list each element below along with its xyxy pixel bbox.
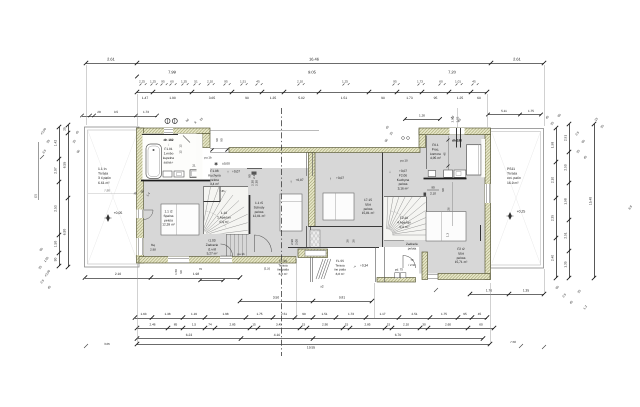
svg-text:90: 90 [431, 186, 435, 190]
level mark court [353, 264, 368, 270]
kitchen right counter fixtures [428, 170, 466, 177]
door swing diagonal top-left room [183, 136, 190, 143]
svg-text:1.01: 1.01 [455, 80, 461, 84]
small vertical dim pair at recess right [451, 116, 460, 122]
svg-text:1.51: 1.51 [341, 96, 348, 100]
svg-text:2.61: 2.61 [107, 57, 116, 62]
dimension chain: right middle vertical [564, 122, 572, 280]
svg-text:1.25: 1.25 [342, 80, 348, 84]
svg-text:90: 90 [245, 96, 249, 100]
svg-text:1.98: 1.98 [193, 272, 199, 276]
svg-text:4.10: 4.10 [274, 333, 281, 337]
level mark left kitchen [227, 169, 240, 174]
svg-text:1.75: 1.75 [441, 312, 447, 316]
door gap frame top middle wall [210, 148, 229, 152]
svg-text:1.3: 1.3 [446, 233, 450, 237]
rotated door dims above left wall door [133, 189, 152, 198]
center axis dash-dot line [281, 108, 283, 356]
dimension chain: above right terrace [486, 109, 543, 116]
svg-text:51: 51 [194, 80, 198, 84]
bathroom room white floor [143, 134, 197, 180]
svg-text:2.90: 2.90 [290, 239, 294, 245]
svg-text:95: 95 [434, 96, 438, 100]
wall: step between bathroom and recess [203, 134, 211, 148]
tall wardrobe right unit [467, 145, 482, 175]
dimension chain: bottom overall line [135, 342, 492, 350]
floor fill: right unit hall [382, 153, 420, 248]
interior partition door frames below top wall [307, 153, 313, 177]
door arc left bottom wall [221, 244, 233, 256]
floor fill: right unit top section [419, 135, 485, 274]
svg-text:2.30: 2.30 [255, 180, 259, 186]
zone line right bedroom [447, 182, 453, 226]
svg-text:5.11: 5.11 [501, 109, 507, 113]
washing machine left unit [190, 170, 202, 178]
svg-text:2.10: 2.10 [115, 272, 121, 276]
fbq labels left room [150, 243, 156, 252]
svg-text:2.10: 2.10 [430, 192, 436, 196]
wall: right court south [377, 278, 416, 283]
svg-text:↑: ↑ [227, 169, 229, 174]
extension line: left entrance to bottom chain [296, 259, 298, 318]
svg-text:1.35: 1.35 [564, 261, 568, 267]
svg-text:1.47: 1.47 [142, 96, 149, 100]
floor fill: left unit hall strip [210, 168, 309, 180]
svg-text:45: 45 [443, 152, 447, 156]
svg-text:2.10: 2.10 [207, 80, 213, 84]
bottom-left stray annotation [84, 342, 110, 348]
bottom-right stray annotations [434, 288, 546, 349]
level star left kitchen corner [214, 162, 230, 167]
svg-text:1.63: 1.63 [140, 312, 146, 316]
right court step squares [395, 268, 406, 278]
svg-text:16.46: 16.46 [309, 57, 320, 62]
door dims right court [408, 258, 416, 267]
svg-text:12: 12 [179, 144, 183, 148]
svg-text:1.42: 1.42 [54, 140, 58, 147]
svg-text:±0,00: ±0,00 [222, 162, 230, 166]
exterior steps by left entrance [316, 259, 331, 289]
svg-text:95: 95 [393, 80, 397, 84]
level mark room M1 [290, 178, 304, 184]
wall line: mid room divider [309, 226, 383, 228]
bedroom left white room [161, 204, 199, 235]
extension line: building right corner to bottom chains [490, 283, 492, 343]
window gap lower left wall [137, 238, 144, 255]
dimension chain: bottom middle partial [238, 296, 374, 304]
bed right unit [426, 212, 466, 241]
svg-text:1.76: 1.76 [486, 289, 492, 293]
svg-text:15: 15 [252, 323, 256, 327]
svg-text:2.61: 2.61 [513, 57, 522, 62]
svg-text:3.5: 3.5 [114, 110, 119, 114]
svg-text:2.10: 2.10 [297, 80, 303, 84]
svg-text:1.17: 1.17 [379, 312, 385, 316]
svg-text:pa 1b: pa 1b [237, 252, 245, 256]
svg-text:+3,07: +3,07 [336, 176, 344, 180]
wall line: bedroom2 / stair hall [382, 153, 384, 248]
extension line: top-left corner up to chain A [86, 65, 88, 125]
door gap bottom-right wall [428, 275, 439, 279]
door size label right hall [427, 186, 439, 196]
svg-text:2.51: 2.51 [411, 312, 417, 316]
bed room M1 furniture [280, 194, 302, 231]
svg-text:9.05: 9.05 [308, 70, 317, 75]
hall strip top edge line [247, 168, 262, 170]
stair right white region [384, 197, 426, 241]
small circles near right section top [402, 137, 410, 140]
svg-text:2.00: 2.00 [295, 239, 299, 245]
window gap in right wall [485, 184, 491, 203]
svg-text:1.25: 1.25 [457, 96, 464, 100]
bathroom small rotated dims [179, 144, 183, 154]
window gap in top-left wall [164, 128, 173, 134]
dimension chain: left outer vertical [63, 123, 71, 269]
dimension text row: top window sizes [139, 80, 479, 86]
wall: top-right exterior [419, 128, 491, 135]
dimension chain: small top-left over bathroom [80, 110, 159, 117]
svg-text:1.35: 1.35 [181, 80, 187, 84]
svg-text:5.02: 5.02 [298, 96, 305, 100]
extension line: right court to bottom chain [374, 283, 376, 318]
svg-text:2.88: 2.88 [150, 248, 156, 252]
door gap in left wall [137, 210, 144, 219]
svg-text:6.70: 6.70 [395, 333, 402, 337]
wardrobe line right wall [480, 225, 482, 241]
svg-text:7.85: 7.85 [219, 189, 225, 193]
dimension chain: below left terrace [83, 272, 242, 280]
svg-text:+0,25: +0,25 [517, 210, 526, 214]
svg-text:3.50: 3.50 [273, 296, 279, 300]
svg-text:7,90: 7,90 [104, 189, 110, 193]
floor fill: middle rooms [309, 153, 383, 248]
small dim line below left doors [198, 279, 224, 282]
svg-text:2.10: 2.10 [403, 323, 409, 327]
svg-text:1.35: 1.35 [270, 96, 277, 100]
door gap in top-right wall [450, 128, 465, 148]
dimension chain: top detailed line [135, 90, 489, 100]
svg-text:90: 90 [220, 138, 224, 142]
svg-text:90: 90 [381, 96, 385, 100]
stair right boundary [384, 197, 427, 241]
svg-text:1.73: 1.73 [348, 312, 354, 316]
svg-text:+0,34: +0,34 [360, 264, 368, 268]
extension line above right door [457, 108, 459, 128]
svg-text:2.02: 2.02 [451, 116, 455, 122]
door size label 90-210 [248, 173, 257, 179]
svg-text:45: 45 [256, 80, 260, 84]
floor fill: left unit main [143, 180, 309, 257]
svg-text:60: 60 [477, 96, 481, 100]
dimension chain: right inner vertical [551, 126, 559, 280]
door arc left entrance interior [255, 235, 272, 252]
rotated marks top middle recess [384, 125, 394, 143]
stair left boundary and first tread corner [203, 187, 248, 235]
svg-text:(1,5): (1,5) [264, 267, 270, 271]
left terrace internal dim [88, 189, 138, 194]
svg-text:90: 90 [248, 174, 252, 178]
svg-text:pa 10: pa 10 [400, 159, 408, 163]
svg-text:90: 90 [179, 270, 183, 274]
rotated dim pair near party wall [251, 180, 259, 186]
wall: interior middle upper [309, 153, 316, 227]
left court railing double line [311, 258, 313, 283]
svg-text:dh 182↓F1.011.enbokupelnasatna: dh 182↓F1.011.enbokupelnasatna+ [163, 138, 174, 165]
svg-text:+0,07: +0,07 [232, 170, 240, 174]
svg-text:15: 15 [302, 323, 306, 327]
svg-text:2.91: 2.91 [564, 135, 568, 141]
svg-text:pa 1b: pa 1b [204, 156, 212, 160]
svg-text:2.97: 2.97 [54, 167, 58, 174]
wall: right exterior [485, 135, 491, 280]
svg-text:1.35: 1.35 [523, 289, 529, 293]
section marker circles B-B [165, 119, 177, 124]
wall: step right of recess [419, 129, 426, 148]
bathtub left unit [146, 144, 162, 179]
svg-text:2.46: 2.46 [149, 323, 155, 327]
svg-text:1.50: 1.50 [54, 241, 58, 248]
svg-text:2.10: 2.10 [551, 177, 555, 183]
window gaps in bottom-left wall [168, 257, 232, 264]
svg-text:fbq: fbq [151, 243, 155, 247]
svg-text:6.90: 6.90 [63, 229, 67, 236]
svg-text:1.51: 1.51 [240, 80, 246, 84]
svg-text:74: 74 [208, 323, 212, 327]
svg-text:1.98: 1.98 [222, 312, 228, 316]
svg-text:60: 60 [170, 80, 174, 84]
svg-text:12: 12 [179, 150, 183, 154]
stair left white region [203, 187, 248, 235]
rotated 26 pair lower mid room [346, 239, 356, 243]
svg-text:↑: ↑ [290, 179, 292, 184]
svg-text:19.55: 19.55 [307, 346, 315, 350]
door hinge dot right hall [424, 193, 427, 196]
svg-text:1.25: 1.25 [150, 80, 156, 84]
wall: bottom-left exterior [139, 257, 296, 264]
kitchen counter front edge left unit [141, 180, 210, 182]
rotated dims on bed [441, 188, 450, 237]
svg-text:95: 95 [161, 80, 165, 84]
dimension chain: left inner vertical [54, 125, 62, 268]
right court edge lines [376, 247, 385, 282]
interior wall line pantry [426, 136, 428, 170]
svg-text:30: 30 [422, 323, 426, 327]
wall: left exterior [137, 128, 144, 263]
svg-text:15: 15 [387, 323, 391, 327]
extension line: building left wall to top chain B [137, 94, 139, 126]
rotated dims on porch wall [290, 239, 299, 245]
svg-text:+0,05: +0,05 [114, 211, 123, 215]
svg-text:6.55: 6.55 [63, 162, 67, 169]
wall: top middle exterior [229, 148, 420, 153]
svg-text:✱: ✱ [214, 162, 218, 167]
svg-text:2.85: 2.85 [229, 323, 235, 327]
wall: left entrance porch stub [298, 249, 328, 258]
left terrace outline [85, 127, 140, 267]
svg-text:x2: x2 [320, 285, 324, 289]
svg-text:2.50: 2.50 [564, 164, 568, 170]
svg-text:1.26: 1.26 [419, 114, 425, 118]
svg-text:90: 90 [54, 258, 58, 262]
svg-text:2.25: 2.25 [139, 80, 145, 84]
svg-text:+0,07: +0,07 [295, 178, 303, 182]
svg-text:dh 180: dh 180 [452, 139, 462, 143]
svg-text:45: 45 [472, 80, 476, 84]
rotated 90 pair top wall door [215, 138, 224, 142]
white strip before right wall [481, 139, 485, 177]
wall: right court west side [422, 252, 428, 280]
duct double line below middle wall [307, 226, 311, 248]
svg-text:85: 85 [174, 323, 178, 327]
svg-text:↗: ↗ [353, 265, 356, 269]
dimension chain: small top-right recess [403, 114, 462, 123]
right terrace level mark [507, 210, 526, 220]
svg-text:2.60: 2.60 [445, 323, 451, 327]
svg-text:26: 26 [352, 239, 356, 243]
svg-text:3.65: 3.65 [209, 96, 216, 100]
left margin short reference line [34, 142, 39, 200]
svg-text:1.75: 1.75 [528, 109, 534, 113]
stair left straight run treads [227, 234, 249, 257]
svg-text:45: 45 [478, 312, 482, 316]
dimension chain: bottom detailed line 1 [133, 312, 489, 320]
party wall edge at stair [249, 195, 251, 234]
svg-text:60: 60 [479, 323, 483, 327]
dimension text row: top segment widths [168, 70, 457, 75]
svg-text:1.19: 1.19 [191, 312, 197, 316]
svg-text:7.20: 7.20 [448, 70, 457, 75]
svg-text:3.05: 3.05 [104, 342, 110, 346]
left margin rotated annotation cluster top [39, 127, 51, 159]
shaft cross-hatch block [298, 230, 338, 248]
svg-text:7.50: 7.50 [510, 340, 516, 344]
svg-text:1.50: 1.50 [174, 269, 178, 275]
left terrace level mark [105, 211, 123, 222]
dimension chain: below right terrace [468, 289, 546, 297]
svg-text:1.5: 1.5 [192, 323, 197, 327]
svg-text:1.98: 1.98 [551, 142, 555, 148]
svg-text:2.51: 2.51 [564, 232, 568, 238]
rotated door dims left court [174, 267, 202, 275]
door arc right unit entrance [403, 256, 416, 269]
svg-text:15: 15 [345, 323, 349, 327]
kitchen right counter front edge [424, 178, 467, 180]
extension line: building left corner to bottom chains [137, 264, 139, 343]
left margin rotated annotation cluster bottom [38, 247, 52, 290]
svg-text:2.35: 2.35 [551, 215, 555, 221]
niche strip right of bathroom [197, 134, 203, 179]
svg-text:95: 95 [463, 312, 467, 316]
svg-text:60: 60 [439, 80, 443, 84]
right terrace outline [491, 129, 544, 269]
svg-text:2.51: 2.51 [281, 312, 287, 316]
svg-text:26: 26 [346, 239, 350, 243]
wall: top-left exterior [137, 128, 210, 134]
wall line: middle rooms bottom [288, 247, 379, 249]
svg-text:90: 90 [441, 188, 445, 192]
bathroom north wall interior edge [142, 134, 178, 136]
rotated marks left of terrace [72, 130, 81, 154]
kitchen counter fixtures left unit [163, 171, 184, 177]
svg-text:2.53: 2.53 [54, 205, 58, 212]
dimension chain: top overall line [84, 57, 546, 66]
svg-text:1.75: 1.75 [256, 312, 262, 316]
extension line: building right wall up to chain B [487, 94, 489, 127]
extension line: top-right terrace to chain A [544, 65, 546, 126]
svg-text:90: 90 [302, 312, 306, 316]
svg-text:25: 25 [63, 127, 67, 131]
dimension chain: right outer overall vertical [589, 122, 597, 280]
dimension chain: bottom detailed line 2 [135, 323, 496, 331]
svg-text:2.90: 2.90 [322, 323, 328, 327]
svg-text:15.40: 15.40 [589, 197, 593, 205]
rotated marks above left building corner [185, 116, 204, 124]
svg-text:↑: ↑ [329, 176, 331, 181]
bed room M2 furniture [323, 193, 354, 220]
svg-text:1.98: 1.98 [169, 96, 176, 100]
door leaf west wall [144, 210, 154, 220]
right margin rotated annotation clusters [545, 113, 634, 311]
svg-text:1.73: 1.73 [417, 80, 423, 84]
svg-text:1.73: 1.73 [406, 96, 413, 100]
svg-text:1.51: 1.51 [321, 312, 327, 316]
svg-text:6.23: 6.23 [186, 333, 193, 337]
svg-text:26: 26 [447, 207, 451, 211]
svg-text:1.38: 1.38 [164, 312, 170, 316]
svg-text:90: 90 [215, 138, 219, 142]
svg-text:1.73: 1.73 [143, 110, 149, 114]
svg-text:1.98: 1.98 [564, 198, 568, 204]
dark furniture blob near hall door [252, 172, 257, 175]
extra tick below chain A start [135, 75, 139, 79]
dimension chain: bottom subtotal line [135, 333, 485, 341]
canopy line over recess [210, 130, 319, 132]
svg-text:95: 95 [224, 80, 228, 84]
extension line: right terrace edge to bottom dim [544, 269, 546, 293]
svg-text:pd. 75: pd. 75 [395, 268, 403, 272]
svg-text:9.81: 9.81 [339, 296, 345, 300]
svg-text:7.99: 7.99 [168, 70, 177, 75]
in-room dim line right pantry [443, 136, 450, 170]
svg-text:2.85: 2.85 [364, 323, 370, 327]
svg-text:↓: ↓ [389, 169, 391, 174]
svg-text:28: 28 [97, 110, 101, 114]
level mark M2 [329, 176, 344, 181]
wall: bottom-right exterior [438, 274, 490, 280]
svg-text:2.40: 2.40 [551, 255, 555, 261]
svg-text:21: 21 [192, 164, 196, 168]
svg-text:76: 76 [199, 267, 203, 271]
svg-text:(2): (2) [34, 194, 38, 198]
